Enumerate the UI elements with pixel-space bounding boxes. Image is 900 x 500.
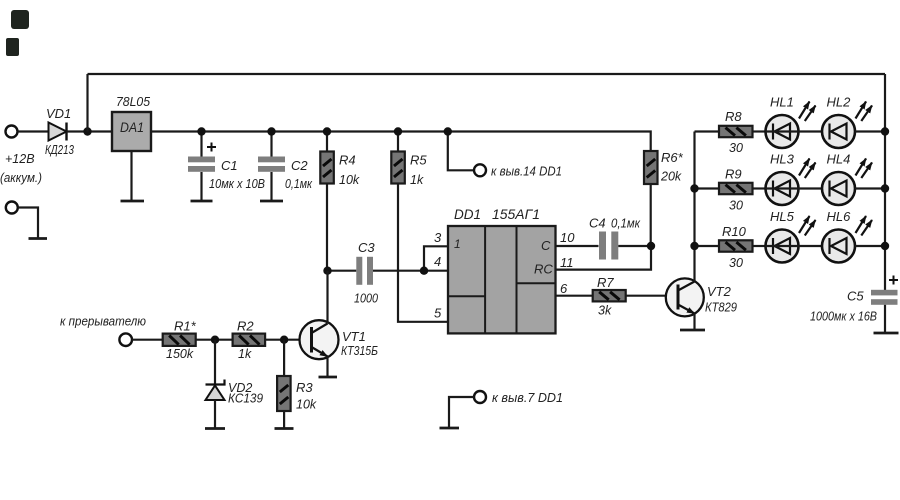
svg-text:3: 3: [434, 230, 442, 245]
ground: input: [29, 237, 48, 240]
svg-text:1: 1: [454, 237, 461, 251]
wire: main rail DA1 to R6: [151, 132, 651, 152]
svg-text:20k: 20k: [660, 170, 682, 184]
wire: pin 6 to R7: [556, 295, 593, 297]
node: pin3/pin4 junction: [420, 267, 428, 275]
resistor R3 10k: [275, 340, 317, 429]
resistor R4 10k: [320, 132, 360, 271]
svg-text:+12В: +12В: [5, 152, 35, 166]
svg-text:C5: C5: [847, 289, 864, 304]
svg-text:HL1: HL1: [770, 95, 794, 110]
svg-text:КС139: КС139: [228, 392, 263, 406]
svg-text:78L05: 78L05: [116, 94, 151, 109]
resistor R5 1k: [391, 132, 448, 322]
node: R1/R2/VD2 junction: [211, 336, 219, 344]
svg-text:C: C: [541, 238, 551, 253]
terminal к выв.14 DD1: [474, 164, 486, 176]
svg-text:3k: 3k: [598, 304, 612, 318]
svg-text:10k: 10k: [339, 173, 360, 187]
wire: top rail: [88, 73, 886, 75]
svg-text:к выв.14 DD1: к выв.14 DD1: [491, 164, 562, 179]
capacitor C4 0,1мк: [589, 216, 651, 260]
svg-text:R2: R2: [237, 319, 254, 334]
wire: pin 11: [556, 246, 652, 270]
wire: minus terminal to ground: [18, 208, 38, 239]
wire: VT2 emitter to ground: [693, 314, 695, 331]
svg-text:155АГ1: 155АГ1: [492, 207, 540, 222]
node: left bus row2: [690, 184, 698, 192]
wire: VT2 collector / LED bus: [693, 132, 695, 282]
svg-text:C2: C2: [291, 158, 308, 173]
svg-text:C4: C4: [589, 216, 606, 231]
terminal к прерывателю: [119, 333, 132, 346]
svg-text:к прерывателю: к прерывателю: [60, 314, 146, 329]
resistor R10 30: [695, 224, 766, 270]
wire: pin 3: [424, 246, 448, 270]
transistor VT1 КТ315Б: [300, 320, 379, 359]
svg-text:VT2: VT2: [707, 284, 732, 299]
node: C4/R6/pin11 junction: [647, 242, 655, 250]
wire: R2 to VT1 base: [265, 339, 311, 341]
diode VD1 КД213: [45, 106, 74, 157]
wire: DA1 ground lead: [130, 151, 132, 201]
svg-text:RC: RC: [534, 262, 553, 277]
LED HL4: [822, 152, 885, 206]
resistor R6* 20k: [644, 150, 684, 246]
zener diode VD2 КС139: [205, 340, 263, 429]
wire: VT1 emitter to ground: [326, 357, 328, 378]
svg-text:к выв.7 DD1: к выв.7 DD1: [492, 390, 563, 405]
resistor R1* 150k: [163, 319, 197, 362]
svg-text:R1*: R1*: [174, 319, 197, 334]
svg-text:DD1: DD1: [454, 207, 481, 222]
node: R4/C3/VT1 collector junction: [323, 267, 331, 275]
ground: DA1: [121, 200, 145, 203]
resistor R9 30: [695, 167, 766, 213]
wire: VD1 to DA1: [67, 130, 113, 132]
svg-text:1k: 1k: [238, 347, 252, 361]
svg-text:0,1мк: 0,1мк: [611, 217, 641, 231]
LED HL3: [766, 152, 823, 206]
terminal к выв.7 DD1: [474, 391, 486, 403]
capacitor C5 1000мк x 16В: [810, 276, 899, 334]
svg-text:1000: 1000: [354, 292, 378, 306]
ground: pin7: [440, 427, 460, 430]
IC DD1 155АГ1: [448, 207, 556, 333]
ground: VT1 emitter: [319, 376, 338, 379]
svg-text:VD1: VD1: [46, 106, 71, 121]
svg-text:150k: 150k: [166, 347, 194, 361]
svg-text:1000мк x 16В: 1000мк x 16В: [810, 310, 877, 324]
svg-text:КТ829: КТ829: [705, 301, 737, 315]
svg-text:1k: 1k: [410, 173, 424, 187]
svg-text:HL3: HL3: [770, 152, 795, 167]
wire: right bus down to C5: [884, 74, 886, 290]
wire: R1 to R2: [196, 339, 233, 341]
svg-text:(аккум.): (аккум.): [0, 171, 42, 185]
LED HL2: [822, 95, 885, 149]
svg-text:VT1: VT1: [342, 329, 366, 344]
svg-text:КТ315Б: КТ315Б: [341, 344, 378, 358]
node: right bus row2: [881, 184, 889, 192]
node: R4 on rail: [323, 127, 331, 135]
capacitor C2 0,1мк: [258, 132, 313, 202]
node: R2/R3/base junction: [280, 336, 288, 344]
svg-text:R3: R3: [296, 380, 313, 395]
svg-text:11: 11: [560, 255, 574, 270]
node: right bus row1: [881, 127, 889, 135]
wire: VT1 collector to C3 node: [326, 271, 328, 324]
wire: terminal to VD1: [18, 130, 49, 132]
svg-text:R5: R5: [410, 153, 427, 168]
wire: junction up to top rail: [86, 74, 88, 132]
svg-text:10k: 10k: [296, 398, 317, 412]
svg-text:30: 30: [729, 141, 743, 155]
svg-text:10: 10: [560, 230, 575, 245]
node: R5 on rail: [394, 127, 402, 135]
svg-text:5: 5: [434, 306, 442, 321]
svg-text:6: 6: [560, 281, 568, 296]
resistor R2 1k: [233, 319, 266, 362]
LED HL6: [822, 209, 885, 263]
capacitor C3 1000: [328, 240, 379, 306]
wire: rail tap to pin14 terminal: [448, 132, 474, 171]
resistor R8 30: [695, 109, 766, 155]
svg-text:R6*: R6*: [661, 150, 684, 165]
node: pin14 tap: [444, 127, 452, 135]
svg-text:КД213: КД213: [45, 143, 74, 157]
svg-text:10мк x 10В: 10мк x 10В: [209, 177, 265, 191]
node: right bus row3: [881, 242, 889, 250]
node: input junction: [83, 127, 91, 135]
svg-text:HL6: HL6: [827, 209, 852, 224]
node: C2 on rail: [267, 127, 275, 135]
svg-text:C3: C3: [358, 240, 375, 255]
svg-text:DA1: DA1: [120, 120, 144, 135]
LED HL5: [766, 209, 823, 263]
node: left bus row3: [690, 242, 698, 250]
svg-text:0,1мк: 0,1мк: [285, 177, 313, 191]
svg-text:R8: R8: [725, 109, 742, 124]
resistor R7 3k: [593, 275, 678, 318]
svg-text:R9: R9: [725, 167, 742, 182]
transistor VT2 КТ829: [666, 278, 737, 316]
capacitor C1 10мк x 10В: [188, 132, 265, 202]
wire: pin7 terminal to ground: [449, 397, 474, 428]
svg-text:R7: R7: [597, 275, 614, 290]
terminal battery minus: [6, 202, 18, 214]
svg-text:HL2: HL2: [827, 95, 852, 110]
svg-text:HL4: HL4: [827, 152, 851, 167]
svg-text:C1: C1: [221, 158, 238, 173]
svg-text:R4: R4: [339, 153, 356, 168]
LED HL1: [766, 95, 823, 149]
svg-text:HL5: HL5: [770, 209, 795, 224]
wire: pin 10: [556, 245, 599, 247]
svg-text:30: 30: [729, 199, 743, 213]
svg-text:30: 30: [729, 256, 743, 270]
node: C1 on rail: [197, 127, 205, 135]
terminal +12V input: [6, 126, 18, 138]
svg-text:R10: R10: [722, 224, 747, 239]
ground: VT2 emitter: [680, 329, 705, 332]
svg-text:4: 4: [434, 254, 441, 269]
wire: pin 4 line: [373, 270, 448, 272]
wire: terminal to R1: [132, 339, 163, 341]
voltage regulator DA1 78L05: [112, 94, 151, 151]
